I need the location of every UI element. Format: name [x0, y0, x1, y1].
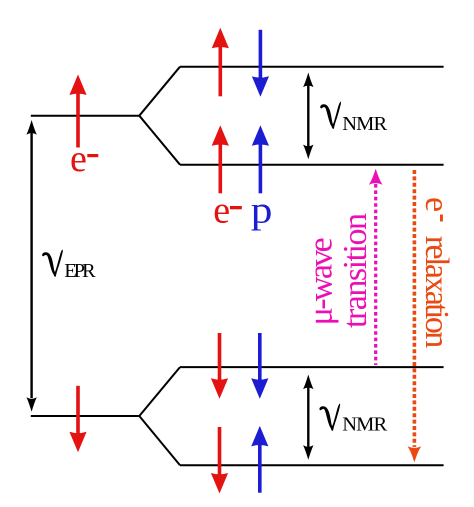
- wire: top lower energy level: [180, 164, 444, 166]
- proton spin arrow blue up (bottom lower level): [251, 426, 268, 493]
- svg-text:NMR: NMR: [342, 413, 387, 435]
- label e- (red, left top): [70, 138, 98, 180]
- svg-text:p: p: [251, 189, 273, 231]
- NMR double arrow bottom: [303, 375, 313, 460]
- electron spin arrow red up (top lower level): [212, 125, 229, 193]
- proton spin arrow blue down (top upper level): [252, 30, 269, 97]
- label e- (red, under top arrows): [213, 190, 242, 232]
- electron spin arrow red down (left bottom level): [69, 386, 86, 453]
- wire: lower split diagonal down: [139, 416, 180, 465]
- label nu NMR top: [320, 102, 387, 136]
- wire: upper-left energy level: [31, 115, 140, 117]
- svg-text:NMR: NMR: [342, 113, 387, 135]
- svg-text:μ-wave: μ-wave: [303, 237, 340, 325]
- proton spin arrow blue down (bottom upper level): [251, 333, 268, 399]
- EPR double arrow: [26, 120, 36, 412]
- wire: upper split diagonal down: [139, 116, 180, 165]
- svg-text:e: e: [213, 190, 230, 232]
- svg-text:transition: transition: [337, 213, 374, 328]
- wire: upper split diagonal up: [139, 67, 180, 116]
- NMR double arrow top: [303, 73, 313, 160]
- electron spin arrow red down (bottom lower level): [211, 427, 228, 494]
- electron spin arrow red down (bottom upper level): [211, 333, 228, 399]
- wire: top upper energy level: [180, 66, 444, 68]
- proton spin arrow blue up (top lower level): [252, 125, 269, 193]
- electron spin arrow red up (left top level): [69, 75, 86, 148]
- wire: lower-left energy level: [31, 415, 140, 417]
- label nu EPR: [42, 250, 96, 282]
- wire: lower split diagonal up: [139, 367, 180, 416]
- svg-text:EPR: EPR: [64, 260, 96, 282]
- electron spin arrow red up (top upper level): [212, 28, 229, 97]
- svg-text:e: e: [70, 138, 87, 180]
- microwave transition dashed arrow (magenta, upward): [369, 169, 383, 185]
- electron relaxation dashed arrow (orange, downward): [408, 446, 422, 462]
- svg-text:e: e: [418, 197, 455, 212]
- svg-text:relaxation: relaxation: [418, 236, 455, 348]
- label nu NMR bottom: [319, 404, 387, 436]
- label e- relaxation (orange, rotated): [418, 197, 455, 348]
- wire: bottom lower energy level: [180, 464, 444, 466]
- label mu-wave transition (magenta, rotated): [303, 213, 374, 328]
- wire: bottom upper energy level: [180, 366, 444, 368]
